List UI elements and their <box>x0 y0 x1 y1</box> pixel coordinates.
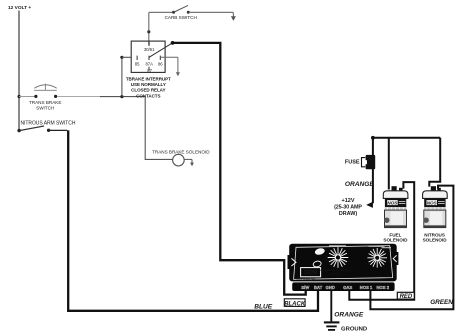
wire down to trans brake solenoid <box>145 97 172 160</box>
svg-text:BAT: BAT <box>314 285 323 290</box>
svg-text:ORANGE: ORANGE <box>345 181 375 188</box>
wire junction up to relay pin 85 <box>121 57 123 96</box>
svg-text:USE NORMALLY: USE NORMALLY <box>131 82 166 87</box>
wire +12V rail to solenoids <box>373 137 440 139</box>
svg-text:BLUE: BLUE <box>254 303 273 310</box>
wire RED GAS to fuel solenoid <box>349 182 414 300</box>
svg-text:NITROUS ARM SWITCH: NITROUS ARM SWITCH <box>21 121 76 127</box>
svg-text:CONTACTS: CONTACTS <box>136 93 160 98</box>
carb switch contacts <box>172 11 175 14</box>
svg-text:NOS: NOS <box>387 201 398 206</box>
svg-text:ORANGE: ORANGE <box>334 312 364 319</box>
wire +12V leg to fuel solenoid <box>388 138 390 190</box>
svg-text:87A: 87A <box>145 61 153 66</box>
node junction relay-85 wire <box>120 95 123 98</box>
svg-text:CLOSED RELAY: CLOSED RELAY <box>131 88 165 93</box>
wire +12V leg to nitrous solenoid <box>429 138 440 187</box>
LED oval <box>314 247 325 255</box>
relay pin 30/51 <box>148 41 150 46</box>
wire thick relay 87A to controller S/W <box>173 43 306 295</box>
node junction 12V/trans-brake <box>18 95 21 98</box>
svg-text:SOLENOID: SOLENOID <box>423 237 448 242</box>
wire solenoid to arrow <box>184 158 192 160</box>
svg-text:NOS: NOS <box>427 201 438 206</box>
wire GND to ground <box>330 291 332 322</box>
terminal labels <box>301 285 390 290</box>
carb switch blade <box>174 5 188 12</box>
wire relay pin 86 to arrow <box>160 56 178 58</box>
svg-text:NOS 2: NOS 2 <box>377 285 390 290</box>
wire ORANGE +12V through fuse <box>372 138 374 203</box>
wire carb switch horizontal <box>149 11 173 13</box>
wire 12V main vertical <box>18 11 20 131</box>
svg-text:TRANS BRAKE SOLENOID: TRANS BRAKE SOLENOID <box>152 149 210 154</box>
relay pins 85 87A 86 <box>136 56 138 60</box>
svg-text:TRANS BRAKE: TRANS BRAKE <box>29 100 61 105</box>
svg-text:30/51: 30/51 <box>144 47 155 52</box>
svg-text:NOS: NOS <box>304 268 317 274</box>
controller U1 NOS time based progressive <box>288 244 399 291</box>
trans brake solenoid <box>173 154 185 166</box>
nitrous solenoid <box>423 186 448 227</box>
svg-text:Controller: Controller <box>329 272 342 276</box>
NOS logo plate <box>301 268 321 277</box>
ground <box>324 321 340 323</box>
svg-text:+12V: +12V <box>342 198 355 204</box>
svg-text:85: 85 <box>135 61 140 66</box>
trans brake switch symbol <box>34 84 57 91</box>
svg-text:GROUND: GROUND <box>341 326 367 332</box>
svg-text:12 VOLT +: 12 VOLT + <box>8 5 31 11</box>
trans brake switch contact dots <box>34 95 37 98</box>
svg-text:(25-30 AMP: (25-30 AMP <box>334 204 362 210</box>
label BLACK <box>284 299 305 307</box>
relay box <box>131 41 165 72</box>
wire to trans brake switch contact <box>19 96 34 98</box>
relay pin 87 <box>148 67 150 71</box>
wire carb switch down to relay 30/51 <box>148 12 150 41</box>
wire thick BLUE arm switch to controller BAT <box>68 130 318 310</box>
node armature to thick wire <box>171 41 175 45</box>
svg-text:BLACK: BLACK <box>284 301 306 307</box>
svg-text:FUSE: FUSE <box>345 159 360 165</box>
fuel solenoid <box>383 186 408 227</box>
svg-text:Time Based Progressive: Time Based Progressive <box>319 268 351 272</box>
svg-text:NOS 1: NOS 1 <box>360 285 373 290</box>
label RED <box>397 292 414 299</box>
nitrous arm switch <box>17 129 20 132</box>
svg-text:DRAW): DRAW) <box>339 211 357 217</box>
svg-text:GREEN: GREEN <box>430 299 453 306</box>
knob 2 <box>367 248 387 268</box>
relay armature diagonal <box>149 43 172 57</box>
svg-text:TBRAKE INTERRUPT: TBRAKE INTERRUPT <box>126 76 171 81</box>
fuse F1 <box>366 155 376 169</box>
svg-text:RED: RED <box>400 294 413 300</box>
svg-text:86: 86 <box>158 61 163 66</box>
svg-text:S/W: S/W <box>301 285 309 290</box>
knob 1 <box>328 247 349 268</box>
wire GREEN NOS1 to nitrous solenoid <box>370 186 453 310</box>
wire carb switch to down arrow <box>189 11 234 13</box>
svg-text:87: 87 <box>147 68 152 73</box>
svg-text:P/N 15974-NOS: P/N 15974-NOS <box>296 276 315 280</box>
svg-text:GND: GND <box>326 285 335 290</box>
svg-text:GAS: GAS <box>343 285 352 290</box>
svg-text:CARB SWITCH: CARB SWITCH <box>165 15 197 20</box>
svg-text:SOLENOID: SOLENOID <box>383 237 408 242</box>
wire trans brake switch to relay junction <box>57 96 100 98</box>
svg-text:SWITCH: SWITCH <box>36 105 54 110</box>
